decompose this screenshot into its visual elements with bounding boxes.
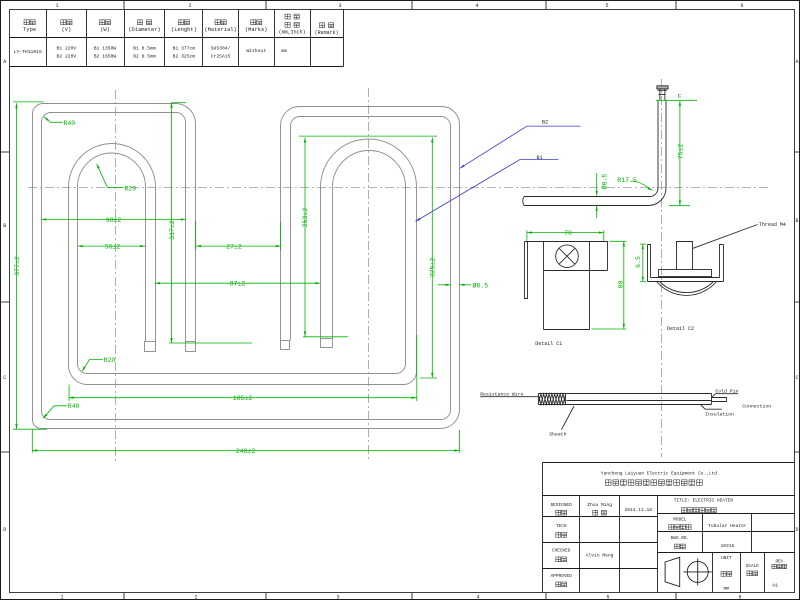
vertical centerline pin detail [661, 79, 663, 457]
detail C1 crossed circle [556, 245, 579, 268]
dimension 87±2 [155, 281, 320, 288]
radius label R20 top [97, 164, 137, 193]
svg-text:27±2: 27±2 [226, 244, 242, 251]
detail C2 sheath arc inner [660, 282, 714, 293]
pin detail tube inner wall [525, 101, 659, 197]
dimension 80 detail C1 [592, 241, 627, 329]
svg-text:5: 5 [605, 3, 608, 9]
svg-text:377±2: 377±2 [14, 256, 21, 276]
svg-text:REV: REV [776, 561, 784, 565]
zone numbers bottom [60, 595, 741, 600]
svg-text:TITLE: ELECTRIC HEATER: TITLE: ELECTRIC HEATER [674, 498, 734, 504]
svg-text:75±2: 75±2 [678, 144, 685, 160]
svg-text:Zhou Ming: Zhou Ming [587, 502, 612, 508]
zone numbers top [55, 3, 743, 9]
svg-text:B1 1350W: B1 1350W [94, 45, 117, 51]
tube B2 inner wall [42, 113, 451, 420]
svg-text:R40: R40 [68, 403, 80, 410]
title block left row dividers [543, 516, 658, 518]
svg-text:C: C [795, 375, 798, 381]
svg-text:3: 3 [338, 3, 341, 9]
pin detail tube outer wall [525, 101, 667, 206]
detail C1 top edge [525, 241, 608, 243]
spec table header texts [23, 14, 338, 36]
svg-text:Alvin Meng: Alvin Meng [586, 553, 614, 559]
svg-text:Ø8.5: Ø8.5 [601, 174, 609, 190]
svg-text:Connection: Connection [742, 404, 771, 410]
vertical centerline right hairpin [368, 88, 370, 462]
leader Thread M4 [693, 225, 758, 249]
label Insulation [705, 408, 722, 410]
detail C1 mid shelf [544, 270, 608, 272]
dimension 98±2 [41, 217, 186, 224]
svg-text:2: 2 [188, 3, 191, 9]
detail C2 sheath arc outer [657, 282, 717, 296]
svg-text:2: 2 [194, 595, 197, 600]
dimension 248±2 [32, 430, 459, 455]
svg-text:B2 325cm: B2 325cm [173, 54, 196, 60]
svg-text:B2 220V: B2 220V [57, 54, 77, 60]
svg-text:B1 8.5mm: B1 8.5mm [133, 45, 156, 51]
svg-text:Cr25A15: Cr25A15 [211, 54, 231, 60]
svg-text:87±2: 87±2 [230, 281, 246, 288]
svg-text:CHECKED: CHECKED [552, 549, 571, 554]
detail C2 bottom plate [648, 281, 724, 283]
zone tick marks right [794, 152, 799, 452]
dimension 325±2 [420, 138, 437, 379]
pin detail tube left end [523, 197, 525, 206]
svg-text:Detail C2: Detail C2 [667, 326, 694, 332]
wire diagram sheath bottom [539, 404, 712, 406]
svg-text:70: 70 [564, 230, 572, 237]
detail C2 stud [677, 242, 693, 270]
leader B2 [460, 120, 581, 169]
svg-text:R17.5: R17.5 [617, 177, 637, 184]
projection symbol circle [687, 561, 708, 582]
detail C1 left strip [525, 242, 528, 299]
svg-text:Type: Type [23, 27, 36, 33]
svg-text:Ø8.5: Ø8.5 [473, 281, 489, 289]
svg-text:1: 1 [55, 3, 58, 9]
horizontal centerline main [28, 187, 768, 189]
detail C2 right wall [720, 245, 724, 282]
dimension 253±2 [299, 136, 437, 337]
dimension 377±2 left [13, 102, 47, 429]
svg-text:LY-TH11015: LY-TH11015 [14, 49, 42, 55]
detail C2 left wall [648, 245, 651, 282]
svg-text:6.5: 6.5 [635, 256, 642, 268]
tube B1 inner wall [78, 151, 406, 374]
svg-text:TECH: TECH [556, 524, 567, 529]
svg-text:(Remark): (Remark) [315, 30, 339, 36]
svg-text:mm: mm [281, 49, 287, 54]
svg-text:248±2: 248±2 [236, 448, 256, 455]
svg-text:B1 220V: B1 220V [57, 45, 77, 51]
svg-text:D: D [795, 527, 798, 533]
wire diagram tube right end [711, 394, 713, 405]
title block outline [543, 463, 795, 593]
tube B1 outer wall [69, 139, 417, 385]
svg-text:DWG.NO.: DWG.NO. [671, 536, 689, 541]
detail C2 washer [659, 270, 712, 277]
svg-text:(Marks): (Marks) [245, 27, 268, 33]
title block left column dividers [579, 496, 581, 593]
detail C1 upper block right wall [607, 242, 609, 271]
spec table grid [10, 10, 344, 67]
svg-text:B1: B1 [537, 155, 543, 161]
svg-text:4: 4 [476, 595, 479, 600]
svg-text:B2 8.5mm: B2 8.5mm [133, 54, 156, 60]
tube B1 terminal cap B [321, 339, 333, 348]
svg-text:80: 80 [617, 281, 624, 289]
svg-text:(Diameter): (Diameter) [128, 27, 160, 33]
svg-text:(W): (W) [100, 27, 110, 33]
svg-text:(V): (V) [62, 27, 72, 33]
svg-text:1: 1 [60, 595, 63, 600]
svg-text:A: A [3, 59, 6, 65]
svg-text:A: A [795, 59, 798, 65]
svg-text:B2: B2 [542, 120, 548, 126]
radius label R40 top [44, 117, 75, 127]
svg-text:SUS304/: SUS304/ [211, 45, 231, 51]
svg-text:UNIT: UNIT [721, 556, 732, 561]
tube B2 terminal cap C [281, 341, 290, 350]
svg-text:(mm,Inch): (mm,Inch) [279, 29, 306, 35]
wire diagram left end [538, 394, 540, 405]
svg-text:Sheath: Sheath [549, 432, 566, 438]
wire diagram sheath top [539, 393, 712, 395]
radius label R17.5 [617, 177, 652, 190]
zone letters left [3, 59, 6, 533]
svg-text:MODEL: MODEL [673, 517, 687, 522]
svg-text:6: 6 [738, 595, 741, 600]
svg-text:2014.11.18: 2014.11.18 [625, 507, 653, 513]
dimension 185±2 [69, 335, 417, 402]
svg-text:D: D [3, 527, 6, 533]
resistance coil zigzag [538, 394, 566, 405]
projection symbol trapezoid [665, 557, 680, 586]
svg-text:Thread M4: Thread M4 [759, 222, 786, 228]
pin thread tick [659, 93, 666, 95]
dimension Ø8.5 pin detail [596, 173, 609, 218]
zone letters right [795, 59, 798, 533]
svg-text:B: B [795, 218, 798, 224]
svg-text:Without: Without [246, 48, 266, 54]
svg-text:(Lenght): (Lenght) [171, 27, 197, 33]
svg-text:Tubular Heater: Tubular Heater [708, 523, 747, 529]
svg-text:DESIGNED: DESIGNED [551, 503, 572, 508]
svg-text:4: 4 [475, 3, 478, 9]
dimension 70 detail C1 [527, 230, 604, 241]
svg-text:3: 3 [336, 595, 339, 600]
title block company divider [543, 495, 795, 497]
svg-text:APPROVED: APPROVED [551, 574, 572, 579]
dimension 27±2 [196, 221, 281, 251]
radius label R40 bottom [43, 403, 79, 418]
title block right dividers [658, 513, 795, 515]
svg-text:253±2: 253±2 [302, 208, 309, 228]
company name chinese [605, 480, 702, 485]
tube B2 outer wall [33, 104, 460, 429]
svg-text:SCALE: SCALE [746, 564, 760, 569]
zone tick marks top [124, 1, 676, 10]
zone tick marks left [1, 152, 10, 452]
svg-text:mm: mm [724, 587, 730, 592]
svg-text:B1 377cm: B1 377cm [173, 45, 196, 51]
svg-text:(Material): (Material) [204, 27, 236, 33]
svg-text:R20: R20 [104, 357, 116, 364]
svg-text:Detail C1: Detail C1 [535, 341, 562, 347]
svg-text:Insulation: Insulation [705, 411, 734, 417]
tube B1 terminal cap A [145, 342, 156, 352]
dimension 56±2 [78, 244, 146, 251]
dimension 317±2 [169, 103, 252, 343]
svg-text:A1: A1 [772, 583, 778, 589]
leader B1 [416, 155, 559, 222]
svg-text:325±2: 325±2 [430, 258, 437, 278]
dimension 6.5 detail C2 [635, 244, 646, 282]
zone tick marks bottom [124, 593, 676, 600]
pin terminal head [657, 86, 668, 89]
svg-text:Yancheng Laiyuan Electric Equi: Yancheng Laiyuan Electric Equipment Co.,… [601, 471, 720, 477]
svg-text:C: C [3, 375, 6, 381]
vertical centerline left hairpin [115, 90, 117, 462]
svg-text:185±2: 185±2 [233, 395, 253, 402]
svg-text:5: 5 [606, 595, 609, 600]
detail C1 body left wall [543, 242, 545, 330]
detail C1 bottom edge [544, 329, 590, 331]
wire diagram insulation line [567, 400, 712, 402]
pin under-head line [658, 89, 668, 91]
svg-text:R20: R20 [124, 185, 136, 192]
svg-text:R40: R40 [64, 120, 76, 127]
svg-text:10315: 10315 [721, 543, 735, 549]
svg-text:B2 1650W: B2 1650W [94, 54, 117, 60]
radius label R20 bottom [82, 357, 115, 372]
spec table data texts [14, 45, 287, 59]
dimension 75±2 pin [656, 100, 697, 205]
svg-text:98±2: 98±2 [106, 217, 122, 224]
detail C1 body right wall [589, 242, 591, 330]
pin body [659, 89, 661, 100]
svg-text:6: 6 [740, 3, 743, 9]
tube B2 terminal cap D [186, 342, 196, 352]
dimension Ø8.5 main [438, 281, 489, 289]
svg-text:B: B [3, 223, 6, 229]
svg-text:56±2: 56±2 [105, 244, 121, 251]
cold pin rod [712, 398, 727, 402]
svg-text:317±2: 317±2 [169, 220, 176, 240]
